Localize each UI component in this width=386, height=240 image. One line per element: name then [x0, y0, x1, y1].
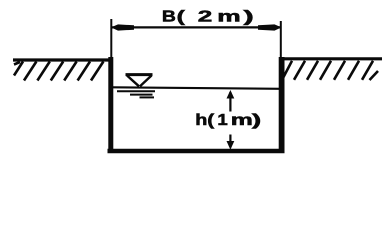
svg-text:(: ( — [177, 8, 185, 25]
svg-text:2: 2 — [198, 8, 213, 25]
dimension line B — [111, 26, 281, 28]
water surface dashes — [117, 91, 155, 97]
right ground line — [281, 57, 382, 60]
left ground line — [13, 58, 112, 61]
left channel wall — [108, 57, 113, 151]
h dimension up arrow — [227, 90, 235, 112]
right hatching — [283, 61, 378, 80]
svg-text:B: B — [162, 7, 176, 25]
right extension line — [280, 21, 282, 57]
right channel wall — [279, 57, 285, 151]
water level symbol (nabla triangle) — [126, 75, 153, 87]
svg-text:): ) — [252, 111, 261, 128]
right arrowhead — [258, 24, 282, 30]
svg-text:m: m — [217, 7, 240, 25]
svg-text:): ) — [243, 8, 253, 25]
water surface line — [113, 87, 281, 89]
svg-text:m: m — [231, 111, 253, 128]
left hatching — [14, 62, 103, 81]
dimension label h(1m) — [195, 110, 261, 128]
h dimension down arrow — [227, 135, 235, 150]
svg-text:h: h — [195, 111, 207, 128]
channel bottom — [108, 149, 285, 153]
left extension line — [110, 19, 112, 57]
dimension label B(2m) — [162, 7, 254, 25]
svg-text:1: 1 — [217, 111, 228, 128]
svg-text:(: ( — [207, 110, 215, 128]
left arrowhead — [111, 24, 134, 30]
